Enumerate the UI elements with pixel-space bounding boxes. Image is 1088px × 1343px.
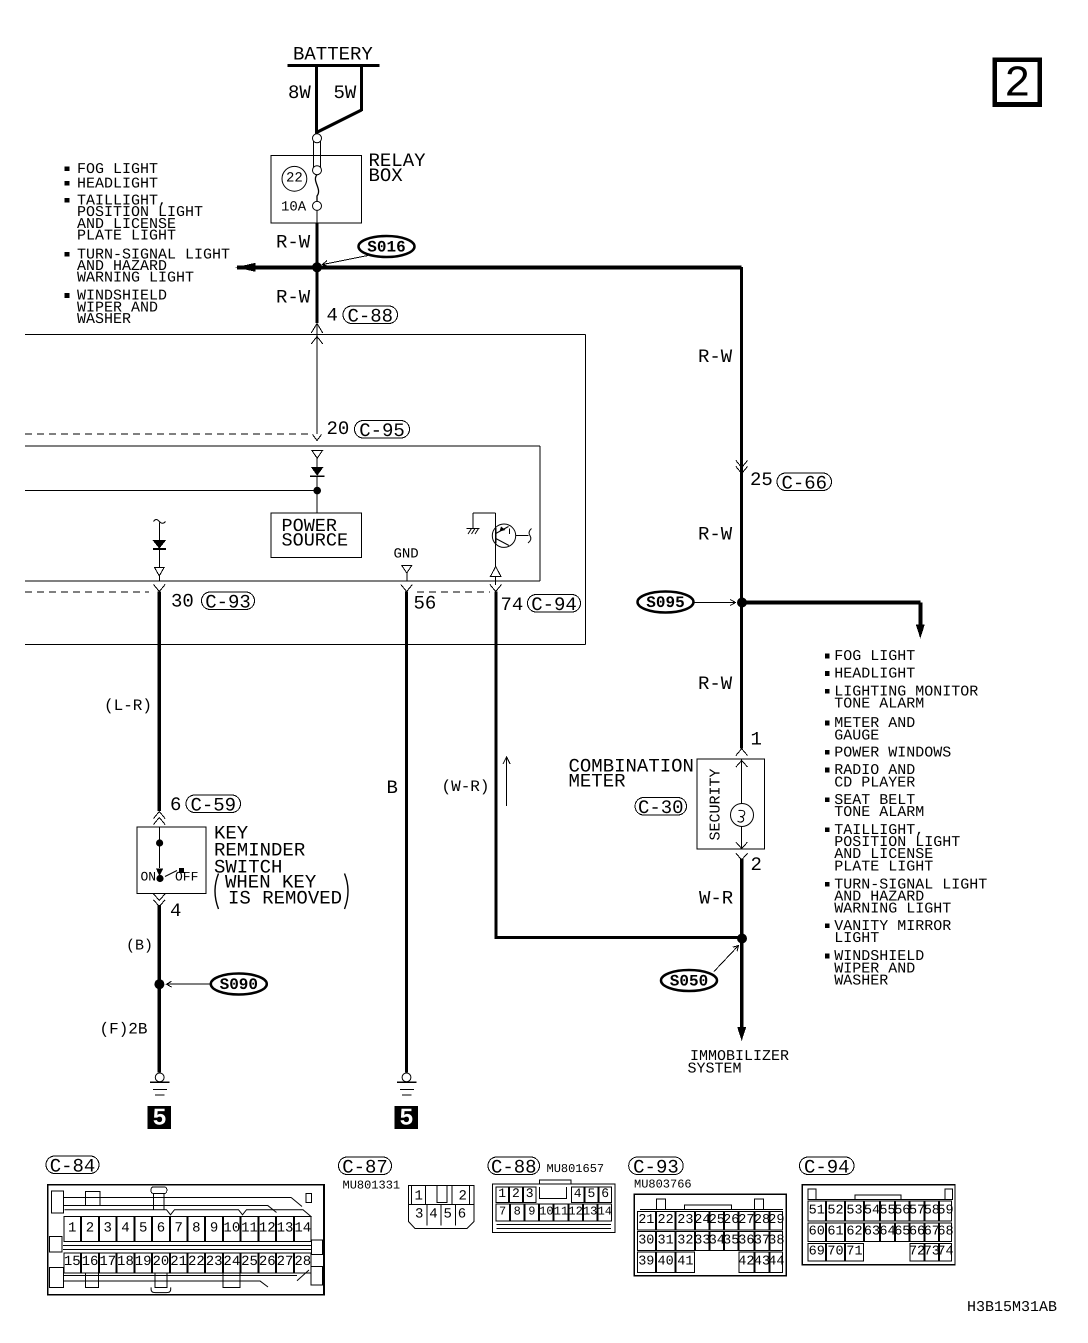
svg-text:TONE ALARM: TONE ALARM: [834, 804, 924, 821]
S016 load list: [65, 167, 70, 172]
splice S090: [154, 979, 164, 989]
svg-text:9: 9: [210, 1220, 218, 1236]
svg-text:9: 9: [528, 1205, 535, 1219]
svg-text:C-87: C-87: [342, 1156, 388, 1178]
svg-text:31: 31: [658, 1233, 674, 1248]
svg-text:C-93: C-93: [205, 591, 251, 613]
wire fuse to splice S016 (R-W): [316, 210, 318, 223]
page ref 2: [995, 60, 1040, 105]
svg-text:26: 26: [259, 1254, 276, 1270]
svg-text:2: 2: [459, 1188, 467, 1204]
ground G1: [155, 1073, 164, 1082]
connector C-59 crossing chevrons: [154, 812, 166, 819]
svg-text:12: 12: [568, 1205, 582, 1219]
power source box: [271, 513, 361, 557]
svg-text:10A: 10A: [281, 199, 307, 215]
fuse 22 10A: [282, 166, 307, 191]
svg-text:CD PLAYER: CD PLAYER: [834, 774, 915, 791]
svg-text:13: 13: [583, 1205, 597, 1219]
svg-text:38: 38: [768, 1233, 784, 1248]
svg-text:41: 41: [677, 1255, 693, 1270]
current direction arrow: [506, 757, 508, 806]
connector C-66 crossing chevrons: [736, 461, 748, 468]
svg-text:12: 12: [259, 1220, 276, 1236]
svg-text:51: 51: [809, 1203, 825, 1218]
svg-text:(F)2B: (F)2B: [100, 1021, 148, 1039]
immobilizer arrow: [737, 1027, 746, 1041]
connector C-84: [48, 1185, 324, 1295]
svg-text:6: 6: [157, 1220, 165, 1236]
wire battery 5W: [360, 66, 363, 112]
connector crossing chevrons at C-88 pin 4: [316, 323, 318, 335]
svg-text:2: 2: [751, 854, 762, 876]
svg-text:C-59: C-59: [190, 794, 236, 816]
connector C-30 label: [635, 798, 687, 816]
svg-text:30: 30: [638, 1233, 654, 1248]
svg-text:1: 1: [68, 1220, 76, 1236]
svg-text:54: 54: [864, 1203, 880, 1218]
svg-text:S016: S016: [367, 238, 405, 256]
svg-text:(L-R): (L-R): [104, 697, 152, 715]
svg-text:PLATE LIGHT: PLATE LIGHT: [77, 227, 176, 244]
connector C-88 label: [488, 1157, 540, 1175]
svg-text:MU803766: MU803766: [634, 1178, 692, 1192]
svg-text:6: 6: [170, 794, 181, 816]
connector line C-95 (dashed): [25, 433, 311, 435]
security lamp: [731, 804, 754, 827]
connector C-66 label: [777, 473, 832, 491]
svg-text:3: 3: [526, 1186, 534, 1201]
wire branch to loads: [742, 601, 921, 605]
svg-text:4: 4: [170, 900, 181, 922]
connector C-87: [409, 1186, 475, 1229]
splice S095: [638, 592, 694, 613]
svg-text:55: 55: [879, 1203, 895, 1218]
svg-text:HEADLIGHT: HEADLIGHT: [834, 666, 915, 683]
wire R-W to C-88: [315, 267, 318, 323]
svg-text:8: 8: [192, 1220, 200, 1236]
svg-text:35: 35: [723, 1233, 739, 1248]
outer component box: [25, 334, 586, 336]
C-94 pins 60-68: [808, 1223, 826, 1241]
svg-text:LIGHT: LIGHT: [834, 930, 879, 947]
connector C-59 label: [186, 795, 241, 813]
svg-text:11: 11: [241, 1220, 258, 1236]
svg-text:1: 1: [415, 1188, 423, 1204]
svg-text:70: 70: [827, 1245, 843, 1260]
svg-text:10: 10: [539, 1205, 553, 1219]
connector line C-93/C-94 (dashed): [25, 591, 149, 593]
svg-text:4: 4: [429, 1206, 437, 1222]
crossing chevron pin 30: [154, 585, 166, 592]
svg-text:62: 62: [846, 1225, 862, 1240]
pin triangle at pin 20: [312, 451, 323, 459]
svg-text:WASHER: WASHER: [834, 972, 888, 989]
connector C-94 label: [528, 595, 581, 613]
svg-text:60: 60: [809, 1225, 825, 1240]
svg-text:W-R: W-R: [699, 888, 733, 910]
wire B: [405, 592, 408, 1073]
svg-text:4: 4: [121, 1220, 129, 1236]
transistor Q1: [473, 512, 496, 514]
svg-text:69: 69: [809, 1245, 825, 1260]
wire (W-R): [494, 592, 497, 940]
svg-text:17: 17: [99, 1254, 116, 1270]
svg-text:C-95: C-95: [359, 420, 405, 442]
svg-text:36: 36: [738, 1233, 754, 1248]
svg-text:42: 42: [738, 1255, 754, 1270]
svg-text:13: 13: [277, 1220, 294, 1236]
S095 load list: [825, 654, 830, 659]
svg-text:C-66: C-66: [781, 472, 827, 494]
svg-text:53: 53: [846, 1203, 862, 1218]
svg-text:5: 5: [444, 1206, 452, 1222]
security meter box: [697, 759, 765, 849]
C-88 pins 7-14: [496, 1204, 510, 1221]
svg-text:4: 4: [574, 1186, 582, 1201]
svg-text:C-93: C-93: [633, 1156, 679, 1178]
connector C-93: [634, 1194, 786, 1276]
key reminder switch box: [137, 827, 206, 894]
wire (L-R): [158, 592, 161, 812]
svg-text:METER: METER: [569, 771, 626, 793]
svg-text:R-W: R-W: [276, 287, 311, 309]
svg-text:30: 30: [171, 591, 194, 613]
svg-text:23: 23: [206, 1254, 223, 1270]
svg-text:1: 1: [751, 729, 762, 751]
svg-text:S050: S050: [670, 972, 708, 990]
svg-text:C-94: C-94: [804, 1156, 850, 1178]
connector C-88 label: [343, 306, 398, 324]
svg-text:IS REMOVED: IS REMOVED: [228, 888, 342, 910]
svg-text:20: 20: [153, 1254, 170, 1270]
svg-text:OFF: OFF: [175, 870, 198, 885]
svg-text:S090: S090: [220, 976, 258, 994]
splice S050: [661, 970, 717, 991]
wire W-R down: [740, 859, 743, 1029]
svg-text:(W-R): (W-R): [442, 778, 490, 796]
wire battery 8W: [315, 66, 318, 134]
svg-text:14: 14: [294, 1220, 311, 1236]
wire main feed horizontal: [237, 265, 742, 269]
connector C-88: [493, 1184, 616, 1233]
svg-text:59: 59: [937, 1203, 953, 1218]
svg-text:SECURITY: SECURITY: [708, 768, 725, 840]
svg-text:74: 74: [937, 1245, 953, 1260]
C-93 pins 39-44: [637, 1252, 655, 1272]
svg-text:44: 44: [768, 1255, 784, 1270]
connector C-93 label: [202, 592, 255, 610]
C-93 pins 21-29: [637, 1212, 655, 1231]
inner component box: [25, 445, 540, 447]
svg-text:SOURCE: SOURCE: [282, 531, 349, 552]
svg-text:4: 4: [327, 305, 338, 327]
svg-text:GND: GND: [394, 546, 419, 562]
svg-text:29: 29: [768, 1213, 784, 1228]
svg-text:WARNING LIGHT: WARNING LIGHT: [77, 270, 194, 287]
svg-text:R-W: R-W: [698, 673, 733, 695]
wire (B): [158, 905, 161, 982]
svg-text:27: 27: [277, 1254, 294, 1270]
node power junction: [313, 487, 321, 495]
svg-text:WARNING LIGHT: WARNING LIGHT: [834, 901, 951, 918]
svg-text:FOG LIGHT: FOG LIGHT: [834, 648, 915, 665]
svg-text:7: 7: [174, 1220, 182, 1236]
svg-text:5: 5: [152, 1106, 166, 1133]
svg-text:ON: ON: [141, 870, 157, 885]
svg-text:R-W: R-W: [698, 524, 733, 546]
svg-text:21: 21: [170, 1254, 187, 1270]
C-84 pins 15-28: [64, 1253, 81, 1273]
svg-text:TONE ALARM: TONE ALARM: [834, 696, 924, 713]
svg-text:R-W: R-W: [276, 232, 311, 254]
C-84 pins 1-14: [64, 1216, 81, 1241]
svg-text:22: 22: [188, 1254, 205, 1270]
ground ref 5: [395, 1106, 418, 1129]
svg-text:28: 28: [294, 1254, 311, 1270]
svg-text:61: 61: [827, 1225, 843, 1240]
svg-text:40: 40: [658, 1255, 674, 1270]
svg-text:21: 21: [638, 1213, 654, 1228]
svg-text:R-W: R-W: [698, 346, 733, 368]
svg-text:C-30: C-30: [638, 797, 684, 819]
svg-text:11: 11: [554, 1205, 568, 1219]
svg-text:S095: S095: [646, 594, 684, 612]
ground ref 5: [148, 1106, 171, 1129]
svg-text:6: 6: [601, 1186, 609, 1201]
wire into pin 20: [313, 435, 322, 441]
node S050 junction: [737, 934, 747, 944]
big parentheses: [215, 874, 348, 910]
svg-text:7: 7: [499, 1205, 506, 1219]
pin triangle 30: [155, 568, 165, 576]
svg-text:8: 8: [514, 1205, 521, 1219]
switch OFF contact: [179, 868, 184, 873]
pin 4 crossing chevrons: [154, 894, 166, 901]
connector C-84 label: [46, 1156, 99, 1174]
wire internal bus: [25, 490, 317, 492]
crossing chevron pin 74: [490, 585, 502, 592]
C-93 pins 30-38: [637, 1232, 655, 1251]
svg-text:SYSTEM: SYSTEM: [688, 1061, 742, 1078]
node switch contact ON: [156, 875, 163, 882]
C-94 pins 69-74: [808, 1244, 826, 1261]
svg-text:19: 19: [135, 1254, 152, 1270]
connector C-87 label: [339, 1157, 392, 1175]
svg-text:C-94: C-94: [531, 594, 577, 616]
svg-text:POWER WINDOWS: POWER WINDOWS: [834, 744, 951, 761]
pin 2: [736, 842, 748, 849]
svg-text:1: 1: [498, 1186, 506, 1201]
ground G2: [402, 1073, 411, 1082]
svg-text:18: 18: [117, 1254, 134, 1270]
svg-text:39: 39: [638, 1255, 654, 1270]
svg-text:C-84: C-84: [50, 1155, 96, 1177]
meter branch coil + diode D2: [154, 520, 166, 524]
crossing chevron pin 56: [401, 585, 413, 592]
node S016 junction: [312, 262, 322, 272]
svg-text:B: B: [387, 777, 398, 799]
svg-text:52: 52: [827, 1203, 843, 1218]
svg-text:25: 25: [750, 469, 773, 491]
fusible link: [313, 134, 322, 143]
svg-text:2: 2: [1004, 59, 1030, 109]
wire R-W right drop: [740, 267, 743, 749]
connector C-94: [802, 1185, 955, 1265]
svg-text:H3B15M31AB: H3B15M31AB: [967, 1299, 1057, 1316]
splice S016: [359, 236, 415, 257]
svg-text:WASHER: WASHER: [77, 311, 131, 328]
transistor collector lead: [516, 535, 529, 537]
svg-text:22: 22: [658, 1213, 674, 1228]
chassis ground: [467, 528, 480, 530]
connector C-94 label: [800, 1157, 855, 1175]
svg-text:2: 2: [512, 1186, 520, 1201]
C-94 pins 51-59: [808, 1201, 826, 1221]
svg-text:26: 26: [723, 1213, 739, 1228]
svg-text:23: 23: [677, 1213, 693, 1228]
svg-text:GAUGE: GAUGE: [834, 727, 879, 744]
connector C-95 label: [355, 421, 410, 439]
svg-text:63: 63: [864, 1225, 880, 1240]
node S095 junction: [737, 598, 747, 608]
pin triangle 74: [495, 544, 497, 567]
svg-text:32: 32: [677, 1233, 693, 1248]
svg-text:3: 3: [104, 1220, 112, 1236]
svg-text:27: 27: [738, 1213, 754, 1228]
diode D1: [316, 458, 318, 467]
node switch contact top: [156, 839, 163, 846]
svg-text:24: 24: [223, 1254, 240, 1270]
svg-text:2: 2: [86, 1220, 94, 1236]
svg-text:5: 5: [588, 1186, 596, 1201]
svg-text:6: 6: [458, 1206, 466, 1222]
svg-text:22: 22: [286, 170, 303, 186]
svg-text:71: 71: [846, 1245, 862, 1260]
svg-text:MU801657: MU801657: [547, 1162, 605, 1176]
svg-text:20: 20: [327, 418, 350, 440]
svg-text:74: 74: [501, 594, 524, 616]
svg-text:BOX: BOX: [369, 165, 404, 187]
svg-text:5: 5: [139, 1220, 147, 1236]
svg-text:64: 64: [879, 1225, 895, 1240]
wire (F)2B: [158, 984, 161, 1073]
svg-text:10: 10: [223, 1220, 240, 1236]
relay box: [271, 155, 362, 223]
svg-text:5: 5: [399, 1106, 413, 1133]
svg-text:HEADLIGHT: HEADLIGHT: [77, 176, 158, 193]
svg-text:8W: 8W: [288, 82, 311, 104]
svg-text:16: 16: [82, 1254, 99, 1270]
svg-text:PLATE LIGHT: PLATE LIGHT: [834, 858, 933, 875]
svg-text:BATTERY: BATTERY: [293, 44, 373, 66]
svg-text:15: 15: [64, 1254, 81, 1270]
svg-text:3: 3: [415, 1206, 423, 1222]
svg-text:25: 25: [241, 1254, 258, 1270]
svg-text:5W: 5W: [334, 82, 357, 104]
C-88 pins 1-6: [496, 1187, 509, 1203]
svg-text:14: 14: [598, 1205, 612, 1219]
svg-text:C-88: C-88: [347, 305, 393, 327]
connector C-93 label: [629, 1157, 684, 1175]
svg-text:56: 56: [414, 593, 437, 615]
svg-text:MU801331: MU801331: [343, 1179, 401, 1193]
svg-text:C-88: C-88: [491, 1156, 537, 1178]
svg-text:68: 68: [937, 1225, 953, 1240]
svg-text:(B): (B): [126, 938, 153, 955]
